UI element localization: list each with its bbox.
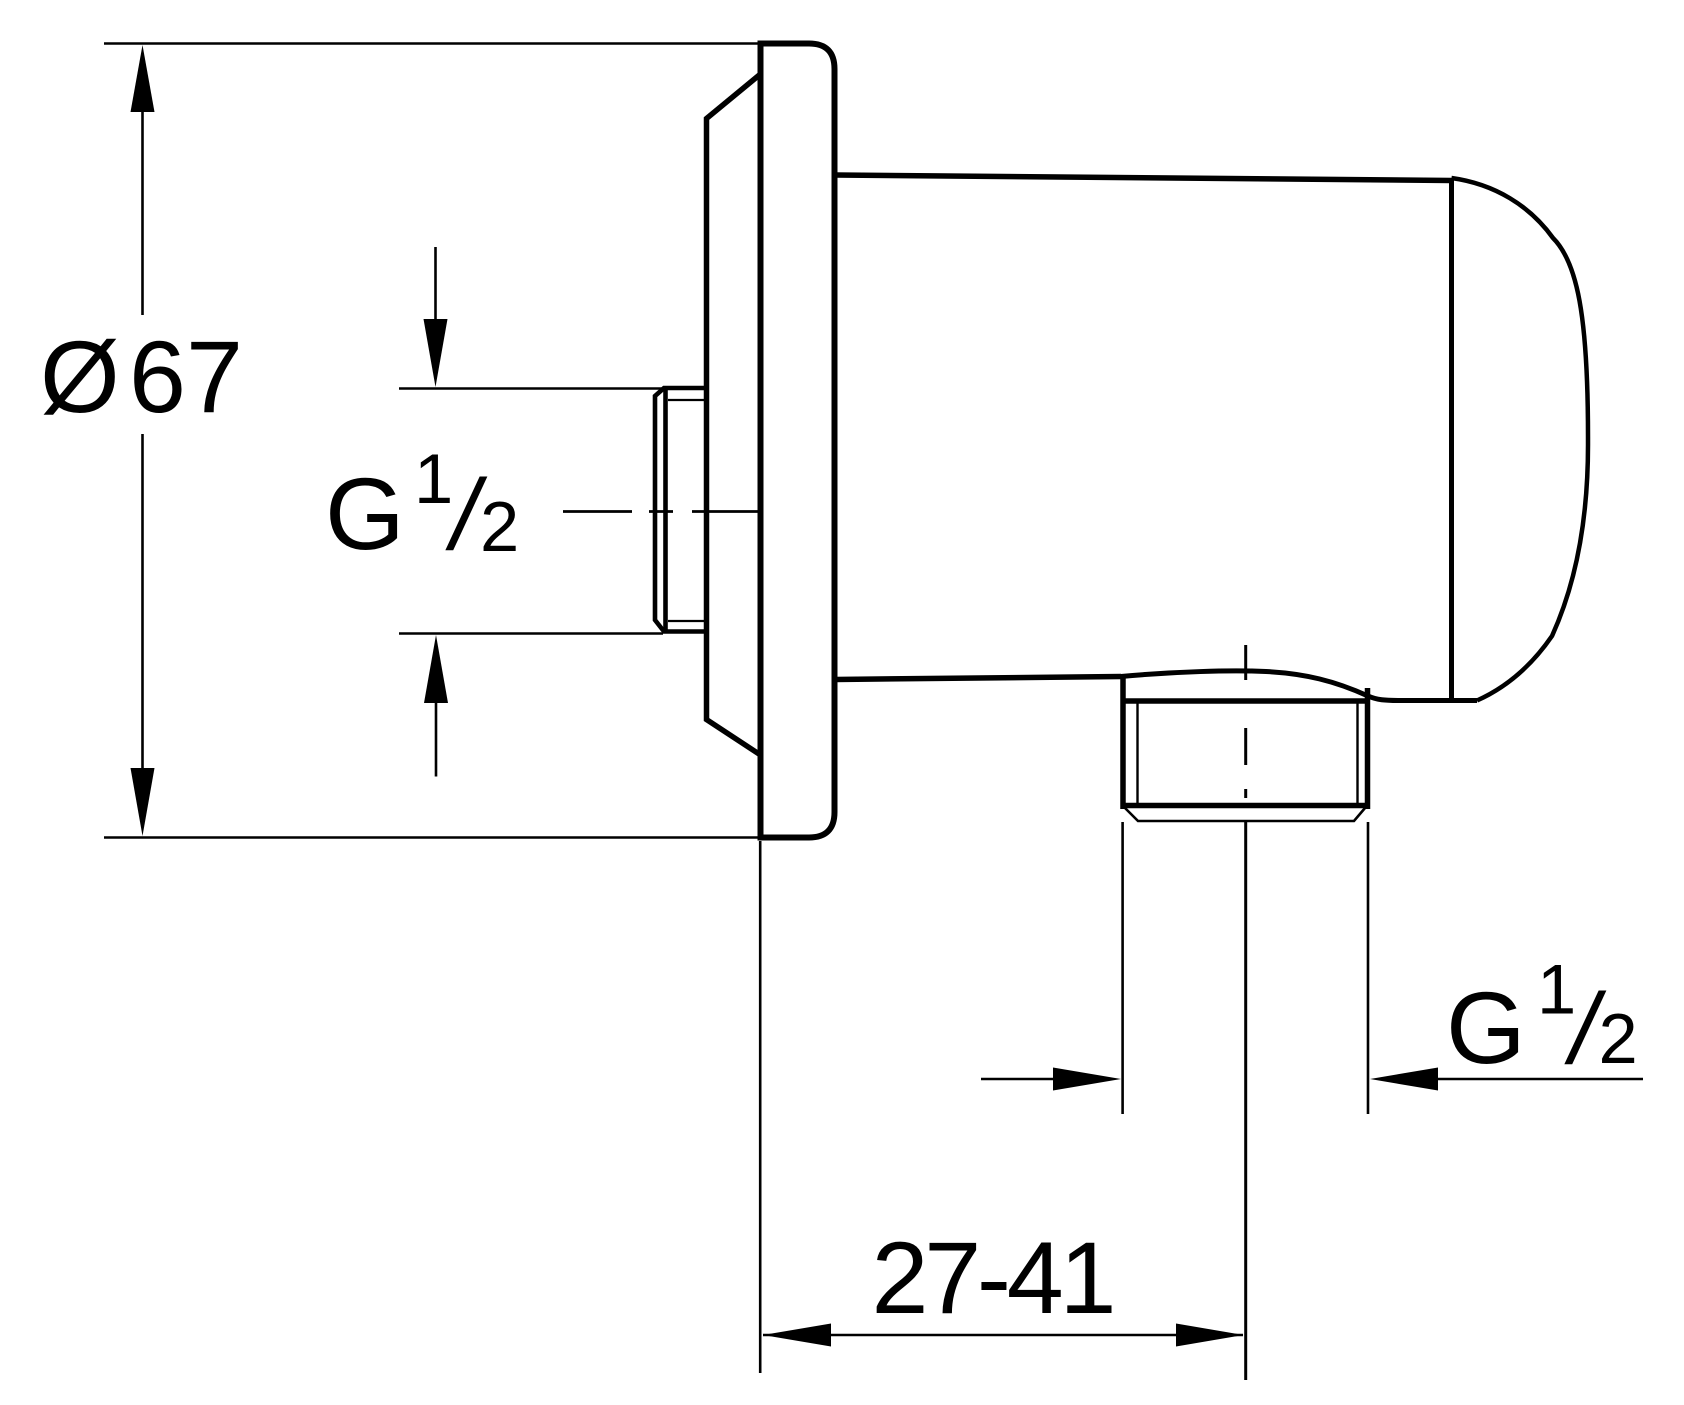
label G 1/2 bottom right [1446,950,1638,1086]
svg-text:27-41: 27-41 [872,1220,1113,1335]
svg-text:G: G [1446,970,1526,1085]
top extension line [104,42,758,45]
outlet bottom line [1124,803,1366,809]
arrowhead up to lower extent [424,635,448,703]
svg-text:67: 67 [129,319,243,434]
svg-text:1: 1 [414,439,453,518]
cap junction line [1449,178,1454,699]
body cylinder bottom edge [835,677,1121,680]
dimension: inlet G 1/2 [399,247,663,777]
arrowhead up [131,45,155,112]
svg-text:Ø: Ø [40,319,120,434]
flange plate (front escutcheon, side view) [761,44,835,838]
left extension line [1121,822,1124,1114]
svg-text:G: G [325,456,405,571]
inlet nipple thread root lines [668,400,706,621]
svg-text:2: 2 [1599,999,1638,1078]
arrowhead right to left extension [1053,1068,1121,1091]
arrowhead down [131,768,155,836]
domed cap outline [1452,178,1589,701]
bottom outlet thread G1/2 [1123,677,1368,809]
outlet thread root lines [1138,703,1358,804]
outlet chamfer + end face [1125,808,1365,821]
left arrow line [981,1078,1055,1081]
right extension line [1367,822,1370,1114]
outlet shoulder line [1123,698,1368,704]
left extension line (wall face) [759,841,762,1373]
dimension: Ø 67 [104,44,758,838]
dimension line [763,1334,1243,1337]
arrowhead left [763,1324,831,1347]
flange back cone [707,74,761,755]
upper arrow stem [434,247,437,330]
lower extent line [399,632,663,635]
outlet centerline (dash-dot, vertical) [1244,645,1247,1380]
inlet centerline [563,510,759,513]
right arrow line [1436,1078,1643,1081]
body cylinder top edge [835,175,1452,181]
outlet left edge [1120,677,1126,809]
upper extent line [399,387,663,390]
arrowhead left to right extension [1370,1068,1438,1091]
dimension: 27-41 [760,841,1243,1373]
svg-text:2: 2 [480,487,519,566]
lower arrow stem [435,700,438,777]
arrowhead right [1176,1324,1244,1347]
boss transition curve over outlet [1121,671,1477,701]
dimension line upper segment [141,100,144,315]
outlet right edge [1365,688,1371,809]
bottom extension line [104,836,758,839]
label G 1/2 left [325,439,519,571]
dimension line lower segment [141,434,144,780]
inlet nipple thread G1/2 (left, into wall) [655,388,708,632]
dimension: outlet G 1/2 [981,822,1643,1114]
arrowhead down to upper extent [424,319,448,387]
